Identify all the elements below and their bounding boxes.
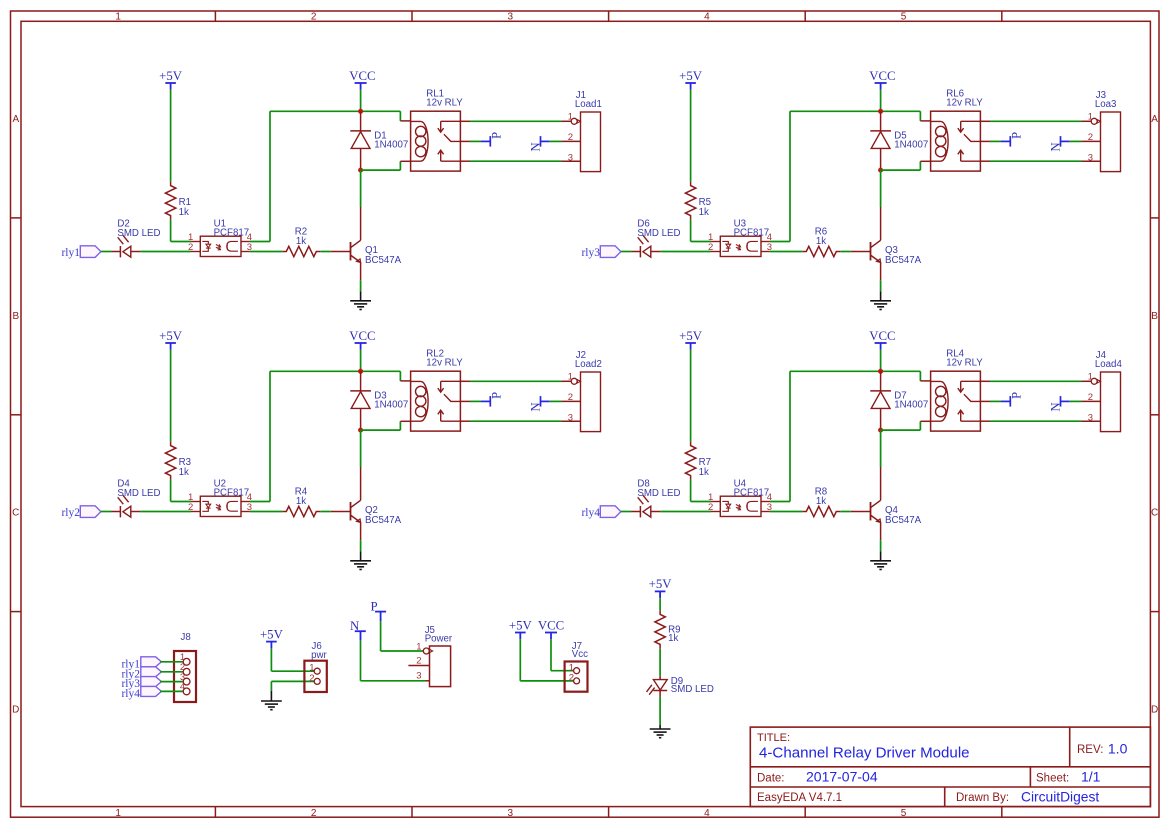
- svg-text:D: D: [12, 705, 19, 716]
- svg-text:R1: R1: [179, 197, 191, 208]
- svg-text:D6: D6: [637, 219, 649, 230]
- circuit channel 2 (bottom-left): [80, 329, 600, 570]
- svg-text:pwr: pwr: [311, 650, 327, 661]
- svg-text:rly3: rly3: [581, 247, 600, 259]
- svg-text:D4: D4: [117, 479, 130, 490]
- svg-text:B: B: [1151, 311, 1158, 322]
- J5 pin1 circle: [423, 648, 429, 654]
- svg-text:U1: U1: [214, 219, 226, 230]
- svg-text:2017-07-04: 2017-07-04: [806, 769, 878, 785]
- svg-text:2: 2: [416, 655, 421, 666]
- svg-text:Q1: Q1: [365, 245, 378, 256]
- wire D9 to ground: [659, 691, 661, 697]
- svg-text:R7: R7: [699, 457, 711, 468]
- svg-text:Drawn By:: Drawn By:: [956, 792, 1009, 804]
- svg-text:R3: R3: [179, 457, 191, 468]
- svg-text:Q2: Q2: [365, 505, 378, 516]
- svg-text:D7: D7: [894, 390, 906, 401]
- svg-text:RL6: RL6: [946, 89, 964, 100]
- svg-text:D5: D5: [894, 130, 906, 141]
- svg-text:4: 4: [704, 808, 710, 819]
- svg-text:R6: R6: [815, 227, 827, 238]
- svg-text:Load4: Load4: [1095, 359, 1123, 370]
- svg-text:1: 1: [416, 641, 421, 652]
- svg-text:Load1: Load1: [575, 99, 602, 110]
- svg-text:D2: D2: [117, 219, 129, 230]
- svg-text:3: 3: [416, 671, 421, 682]
- svg-text:U2: U2: [214, 479, 226, 490]
- svg-text:RL4: RL4: [946, 349, 964, 360]
- svg-text:U3: U3: [734, 219, 746, 230]
- svg-text:1: 1: [309, 662, 314, 673]
- svg-text:1k: 1k: [668, 633, 678, 644]
- svg-text:5: 5: [901, 12, 907, 23]
- svg-text:Date:: Date:: [757, 773, 785, 785]
- ground under D9: [650, 729, 671, 738]
- resistor R9 1k: [655, 610, 665, 648]
- svg-text:U4: U4: [734, 479, 747, 490]
- svg-text:2: 2: [569, 673, 574, 684]
- LED D9: [653, 680, 667, 690]
- svg-text:D1: D1: [374, 130, 386, 141]
- svg-text:Sheet:: Sheet:: [1036, 773, 1069, 785]
- svg-text:2: 2: [311, 12, 317, 23]
- svg-text:CircuitDigest: CircuitDigest: [1021, 789, 1099, 804]
- svg-text:4: 4: [704, 12, 710, 23]
- svg-text:Load2: Load2: [575, 359, 602, 370]
- J5 pin2 stub: [408, 665, 429, 667]
- svg-text:+5V: +5V: [649, 577, 673, 591]
- svg-text:4-Channel Relay Driver Module: 4-Channel Relay Driver Module: [759, 744, 970, 761]
- svg-text:4: 4: [180, 682, 185, 693]
- svg-text:R5: R5: [699, 197, 711, 208]
- svg-text:D: D: [1151, 705, 1158, 716]
- svg-text:1: 1: [115, 12, 121, 23]
- svg-text:C: C: [12, 508, 19, 519]
- svg-text:RL1: RL1: [426, 89, 444, 100]
- svg-text:3: 3: [508, 808, 514, 819]
- svg-text:5: 5: [901, 808, 907, 819]
- svg-text:1: 1: [115, 808, 121, 819]
- svg-text:C: C: [1151, 508, 1158, 519]
- svg-text:D8: D8: [637, 479, 649, 490]
- svg-text:3: 3: [508, 12, 514, 23]
- svg-text:1.0: 1.0: [1108, 741, 1128, 757]
- svg-text:R4: R4: [295, 487, 308, 498]
- svg-text:SMD LED: SMD LED: [671, 684, 714, 695]
- svg-text:rly4: rly4: [581, 507, 600, 519]
- svg-text:Vcc: Vcc: [572, 649, 588, 660]
- svg-text:D3: D3: [374, 390, 386, 401]
- svg-text:Q4: Q4: [885, 505, 899, 516]
- svg-text:rly2: rly2: [61, 507, 80, 519]
- svg-text:rly1: rly1: [61, 247, 80, 259]
- wires to J6: [271, 670, 314, 672]
- svg-text:R2: R2: [295, 227, 307, 238]
- svg-text:B: B: [12, 311, 19, 322]
- svg-text:Q3: Q3: [885, 245, 898, 256]
- svg-text:Loa3: Loa3: [1095, 99, 1117, 110]
- circuit channel 3 (top-right): [600, 69, 1120, 310]
- svg-text:1/1: 1/1: [1081, 769, 1101, 785]
- svg-text:Power: Power: [425, 634, 453, 645]
- wire R9 to D9: [659, 648, 661, 676]
- svg-text:2: 2: [311, 808, 317, 819]
- title block: [750, 727, 1150, 807]
- svg-text:VCC: VCC: [538, 618, 564, 632]
- svg-text:A: A: [12, 114, 19, 125]
- svg-text:R8: R8: [815, 487, 827, 498]
- svg-text:TITLE:: TITLE:: [757, 732, 790, 744]
- svg-text:REV:: REV:: [1077, 744, 1103, 756]
- circuit channel 1 (top-left): [80, 69, 600, 310]
- svg-text:+5V: +5V: [260, 627, 284, 641]
- svg-text:RL2: RL2: [426, 349, 444, 360]
- svg-text:rly4: rly4: [121, 688, 140, 700]
- svg-text:EasyEDA V4.7.1: EasyEDA V4.7.1: [757, 792, 842, 804]
- ground under J6: [261, 701, 282, 710]
- circuit channel 4 (bottom-right): [600, 329, 1120, 570]
- svg-text:A: A: [1151, 114, 1158, 125]
- svg-text:+5V: +5V: [509, 618, 533, 632]
- svg-text:J8: J8: [181, 632, 191, 643]
- svg-text:2: 2: [309, 673, 314, 684]
